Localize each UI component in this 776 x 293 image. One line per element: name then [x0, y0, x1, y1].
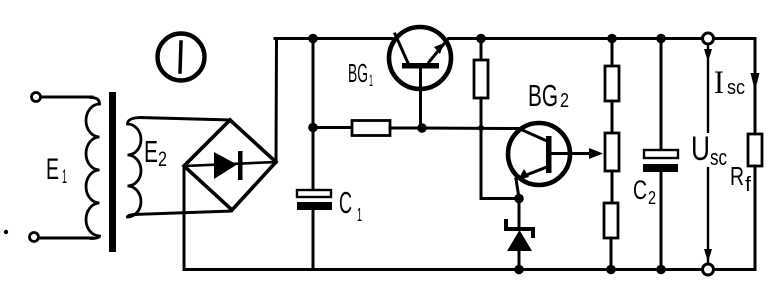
- svg-text:2: 2: [560, 90, 569, 112]
- wire: right edge down through Rf: [754, 39, 757, 135]
- resistor R1 (BG1 base bias): [352, 121, 390, 136]
- capacitor C2: [660, 39, 663, 151]
- wire: E2 top to bridge AC corner: [140, 118, 230, 121]
- junction dot: BG2 emitter / zener node: [514, 194, 524, 204]
- svg-text:C: C: [339, 185, 352, 220]
- potentiometer RP: [605, 133, 619, 171]
- resistor R3 (divider upper): [605, 66, 619, 101]
- svg-text:R: R: [730, 161, 744, 191]
- junction dot: base resistor tap: [308, 123, 318, 133]
- svg-text:E: E: [144, 134, 158, 169]
- junction dot: C1 top on rail: [308, 34, 318, 44]
- junction dot: zener bottom: [514, 265, 524, 275]
- wire: rail to R2: [480, 39, 483, 61]
- primary winding E1 of transformer: [86, 98, 100, 239]
- svg-text:2: 2: [648, 188, 656, 208]
- figure number 1 in circle: [158, 34, 205, 81]
- wire: BG1 base node to BG2 collector: [422, 127, 520, 131]
- wire: top rail left segment: [275, 37, 392, 40]
- wire: top rail right segment: [449, 37, 755, 40]
- svg-text:sc: sc: [710, 145, 727, 170]
- svg-text:1: 1: [369, 71, 373, 90]
- wire: R4 to bottom rail: [610, 238, 613, 270]
- terminal: primary bottom input: [30, 233, 39, 242]
- zener diode: [518, 199, 521, 229]
- filter capacitor C1: [297, 190, 331, 197]
- wire: primary top lead: [41, 96, 92, 99]
- wire: E2 bottom to bridge AC corner: [134, 211, 231, 215]
- junction dot: divider top: [607, 34, 617, 44]
- svg-text:E: E: [46, 153, 59, 186]
- secondary winding E2 of transformer: [128, 118, 143, 218]
- svg-text:C: C: [633, 175, 647, 205]
- wire: bridge plus corner up to top rail: [275, 39, 279, 163]
- svg-text:BG: BG: [348, 58, 368, 88]
- resistor R2 (zener bias): [474, 60, 488, 98]
- svg-text:2: 2: [158, 148, 167, 171]
- output terminal plus: [703, 33, 714, 44]
- current arrow Isc on right edge: [751, 73, 760, 91]
- transistor BG1: [389, 27, 451, 89]
- voltage arrow Usc: [707, 45, 709, 263]
- diode inside bridge: [184, 162, 276, 166]
- wire: BG2 base to potentiometer wiper: [551, 152, 596, 155]
- svg-text:BG: BG: [528, 78, 558, 113]
- wire: bridge minus corner down to bottom rail: [183, 166, 186, 270]
- junction dot: zener bias resistor top: [476, 34, 486, 44]
- label Usc: [690, 133, 727, 167]
- wire crossing blob at R2/base-wire crossover: [478, 125, 484, 131]
- wire: to BG2 emitter node: [481, 197, 519, 200]
- transformer core: [109, 92, 116, 252]
- svg-text:1: 1: [62, 167, 67, 188]
- wire: rail to R3: [611, 39, 614, 67]
- svg-text:sc: sc: [727, 77, 745, 99]
- wire: R2 down to zener node: [480, 98, 483, 199]
- svg-text:f: f: [745, 174, 751, 196]
- bridge rectifier outline: [184, 120, 276, 210]
- bottom rail: [184, 268, 755, 271]
- wire: primary bottom lead: [39, 237, 92, 240]
- transistor BG2: [508, 123, 570, 185]
- output terminal minus: [703, 264, 714, 275]
- wire: R1 to BG1 base node: [390, 127, 422, 130]
- wire: R3 to potentiometer: [611, 101, 614, 133]
- wire: C1 branch upper: [312, 39, 315, 191]
- resistor R4 (divider lower): [604, 203, 618, 238]
- wire: potentiometer to R4: [611, 171, 614, 203]
- junction dot: C2 top: [656, 34, 666, 44]
- terminal: primary top input: [32, 93, 41, 102]
- junction dot: BG1 base node: [417, 123, 427, 133]
- noise speck: [4, 230, 8, 234]
- junction dot: divider bottom: [606, 265, 616, 275]
- junction dot: C2 bottom: [656, 265, 666, 275]
- wire: C1 node to resistor R1: [313, 126, 352, 129]
- load resistor Rf: [748, 134, 762, 166]
- svg-text:I: I: [714, 65, 724, 101]
- wiper arrow of potentiometer: [589, 148, 603, 159]
- svg-text:U: U: [691, 130, 710, 168]
- svg-text:1: 1: [357, 205, 362, 225]
